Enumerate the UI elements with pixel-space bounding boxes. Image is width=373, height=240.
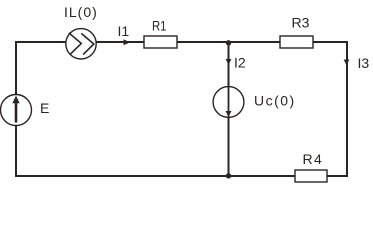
current arrow I2	[226, 59, 232, 65]
svg-text:I2: I2	[234, 55, 246, 71]
current arrow I1	[124, 39, 131, 45]
junction node A	[226, 40, 231, 45]
svg-text:R3: R3	[292, 15, 310, 31]
capacitor voltage source Uc(0)	[213, 87, 244, 118]
svg-text:E: E	[40, 100, 49, 116]
wire middle branch	[228, 42, 230, 176]
current source IL(0)	[66, 29, 96, 59]
wire left side	[15, 41, 17, 177]
junction node B	[226, 173, 231, 178]
resistor R3	[280, 36, 313, 48]
svg-text:IL(0): IL(0)	[64, 4, 98, 20]
resistor R4	[295, 170, 327, 182]
svg-text:R4: R4	[303, 151, 324, 167]
voltage source E	[1, 95, 32, 126]
svg-text:Uc(0): Uc(0)	[254, 93, 296, 109]
svg-text:I3: I3	[358, 55, 370, 71]
svg-text:I1: I1	[118, 23, 130, 39]
current arrow I3	[344, 60, 350, 66]
wire right side	[346, 41, 348, 177]
wire bottom rail	[15, 175, 348, 177]
svg-text:R1: R1	[152, 18, 167, 34]
wire top rail	[16, 41, 347, 43]
resistor R1	[144, 36, 177, 48]
